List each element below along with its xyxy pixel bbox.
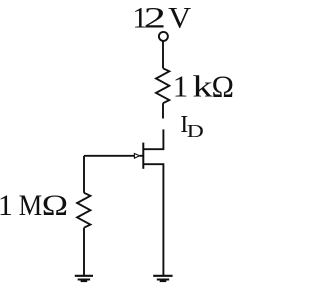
- transistor Q1 source lead: [143, 164, 163, 276]
- supply terminal circle: [159, 32, 168, 41]
- resistor R2 1 MOhm zigzag: [77, 193, 90, 228]
- transistor Q1 gate arrow: [134, 154, 139, 159]
- wire: resistor R1 to drain (upper segment): [162, 103, 164, 118]
- svg-text:D: D: [187, 121, 204, 141]
- wire: drain lead (lower segment after gap): [143, 129, 163, 149]
- value label 1 MOhm: [0, 189, 68, 222]
- svg-text:Ω: Ω: [212, 69, 234, 104]
- current label ID: [180, 112, 204, 141]
- transistor Q1 gate stub to channel: [140, 155, 144, 157]
- resistor R1 1 kOhm zigzag: [156, 68, 169, 103]
- wire: resistor R2 to ground: [83, 228, 85, 276]
- ground left (gate bias): [75, 276, 93, 281]
- svg-text:k: k: [192, 69, 213, 104]
- ground right (source): [153, 276, 172, 281]
- node VDD label 12 V: [132, 2, 191, 35]
- transistor Q1 channel bar: [142, 143, 144, 169]
- svg-text:Ω: Ω: [42, 189, 68, 222]
- transistor Q1 gate wire: [84, 155, 135, 157]
- value label 1 kOhm: [173, 69, 234, 104]
- svg-text:M: M: [19, 189, 43, 222]
- svg-text:1: 1: [173, 69, 189, 104]
- wire: terminal to resistor R1: [162, 42, 164, 69]
- wire: gate corner to resistor R2: [83, 156, 85, 193]
- svg-text:2: 2: [144, 2, 166, 35]
- svg-text:1: 1: [0, 189, 13, 222]
- svg-text:V: V: [168, 2, 191, 35]
